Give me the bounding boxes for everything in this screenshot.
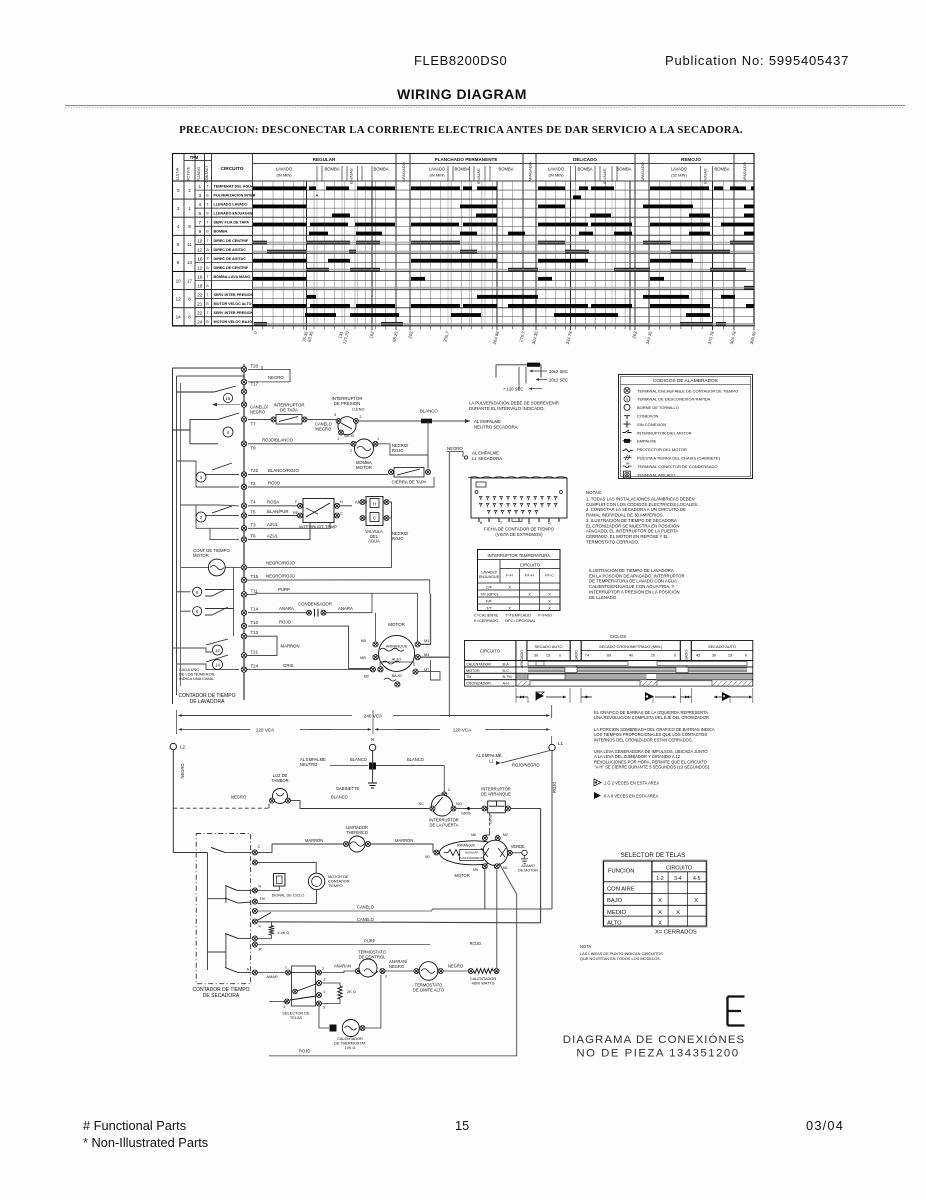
svg-text:4800 WATTS: 4800 WATTS xyxy=(472,981,495,986)
svg-text:AL EMPALME: AL EMPALME xyxy=(474,419,501,424)
svg-text:T/T: T/T xyxy=(486,605,492,610)
svg-text:ROJO: ROJO xyxy=(552,782,557,793)
svg-text:SERV FIJA DE TAPA: SERV FIJA DE TAPA xyxy=(214,221,250,225)
svg-text:DE LIMITE ALTO: DE LIMITE ALTO xyxy=(413,987,444,992)
svg-text:T5: T5 xyxy=(251,510,257,515)
svg-text:8: 8 xyxy=(177,260,180,265)
resistor 2K xyxy=(322,983,356,1004)
svg-text:APAGADO: APAGADO xyxy=(520,650,524,668)
svg-text:1: 1 xyxy=(337,437,339,441)
svg-text:2: 2 xyxy=(188,188,191,193)
svg-text:0: 0 xyxy=(177,188,180,193)
pump motor BOMBA MOTOR xyxy=(248,437,428,470)
temp table legend xyxy=(474,613,552,624)
svg-text:4: 4 xyxy=(177,224,180,229)
svg-text:2: 2 xyxy=(360,415,362,419)
svg-text:18: 18 xyxy=(197,284,203,290)
svg-text:CIERRA DE TAPA: CIERRA DE TAPA xyxy=(392,480,427,485)
svg-text:6 A 8 VECES EN ESTA AREA: 6 A 8 VECES EN ESTA AREA xyxy=(604,794,659,799)
svg-text:CANELO: CANELO xyxy=(357,917,374,922)
cam switch 5 xyxy=(177,587,234,596)
svg-text:ARRANQUE: ARRANQUE xyxy=(386,645,408,649)
svg-text:NEGRO: NEGRO xyxy=(447,446,463,451)
svg-text:T21: T21 xyxy=(251,649,259,654)
svg-text:LLENO: LLENO xyxy=(352,408,364,412)
notes NOTAS xyxy=(586,490,698,544)
thermostat heater CALENTADOR DE THERMOSTAT xyxy=(269,975,517,1056)
cam switch 14 xyxy=(177,655,240,670)
svg-text:C=CALIENTE: C=CALIENTE xyxy=(474,613,499,618)
svg-text:C/F: C/F xyxy=(486,584,493,589)
svg-text:CODIGOS DE ALAMBRADOS: CODIGOS DE ALAMBRADOS xyxy=(653,378,718,384)
svg-text:T14: T14 xyxy=(251,607,259,612)
svg-text:REGULAR: REGULAR xyxy=(313,157,336,162)
svg-text:ROSA: ROSA xyxy=(267,499,279,504)
cam switch 16 xyxy=(177,386,241,406)
svg-text:TERMINAL AISLADO: TERMINAL AISLADO xyxy=(637,472,675,477)
svg-text:SERV INTER PRESION: SERV INTER PRESION xyxy=(214,311,254,315)
svg-text:CONTADOR: CONTADOR xyxy=(328,879,350,883)
svg-text:LAVADO: LAVADO xyxy=(276,167,293,172)
svg-text:CIRCUITO: CIRCUITO xyxy=(520,563,541,568)
svg-text:DE LLENADO.: DE LLENADO. xyxy=(589,595,617,600)
svg-text:MARRÓN: MARRÓN xyxy=(305,838,323,843)
svg-text:X: X xyxy=(548,591,551,596)
timer chart gridlines xyxy=(263,181,724,326)
svg-text:* Non-Illustrated Parts: * Non-Illustrated Parts xyxy=(83,1135,208,1150)
svg-text:VERDE: VERDE xyxy=(511,844,525,849)
svg-text:12: 12 xyxy=(176,296,182,301)
svg-text:MOTOR: MOTOR xyxy=(193,553,209,558)
svg-text:PROTECTOR DEL MOTOR: PROTECTOR DEL MOTOR xyxy=(637,447,687,452)
svg-text:(IN MIN): (IN MIN) xyxy=(548,173,564,178)
svg-text:1: 1 xyxy=(377,437,379,441)
svg-text:15: 15 xyxy=(455,1118,469,1133)
svg-text:CERRADO, EL MOTOR EN REPOSE Y: CERRADO, EL MOTOR EN REPOSE Y EL xyxy=(586,534,669,539)
svg-text:T13: T13 xyxy=(251,630,259,635)
svg-text:VACIO: VACIO xyxy=(344,434,355,438)
caption CONTADOR DE TIEMPO DE LAVADORA xyxy=(178,693,235,705)
svg-text:2: 2 xyxy=(322,967,324,971)
svg-text:N: N xyxy=(371,737,374,742)
svg-text:T/F (OPC): T/F (OPC) xyxy=(480,591,499,596)
svg-text:DE THERMOSTAT: DE THERMOSTAT xyxy=(334,1041,367,1045)
svg-text:RAMAL INDIVIDUAL DE 30 AMPERIO: RAMAL INDIVIDUAL DE 30 AMPERIOS. xyxy=(586,513,664,518)
svg-text:1: 1 xyxy=(188,206,191,211)
motor wiring to bus xyxy=(376,594,450,680)
svg-text:1: 1 xyxy=(198,184,201,190)
svg-text:ROJO/BLANCO: ROJO/BLANCO xyxy=(262,437,293,442)
svg-text:T: T xyxy=(206,275,208,279)
svg-text:(IN MIN): (IN MIN) xyxy=(429,173,445,178)
svg-text:4: 4 xyxy=(198,202,201,208)
svg-text:CONTACT: CONTACT xyxy=(205,165,209,183)
svg-text:DE TEMPERATURA DE LAVADO CON A: DE TEMPERATURA DE LAVADO CON AGUA xyxy=(589,579,677,584)
dimension 120 VCA right xyxy=(375,727,550,732)
capacitor CONDENSADOR xyxy=(248,593,372,616)
svg-text:SIGNAL DE CICLO: SIGNAL DE CICLO xyxy=(272,893,305,897)
timer motor CONT DE TIEMPO xyxy=(181,548,241,636)
svg-text:INTERRUPTOR A PRESIÓN EN LA PO: INTERRUPTOR A PRESIÓN EN LA POSICIÓN xyxy=(589,589,680,594)
svg-text:F-H: F-H xyxy=(506,573,513,578)
svg-text:6: 6 xyxy=(177,242,180,247)
terminal L1 xyxy=(549,741,564,909)
svg-text:CALENTADOR: CALENTADOR xyxy=(466,662,491,666)
wire T2 ROJO xyxy=(248,477,434,487)
svg-text:NO DE PIEZA 134351200: NO DE PIEZA 134351200 xyxy=(576,1048,739,1060)
svg-text:DE PRESION: DE PRESION xyxy=(334,401,361,406)
svg-text:10±2 SEC: 10±2 SEC xyxy=(549,369,568,374)
svg-text:LAVADO: LAVADO xyxy=(429,167,446,172)
svg-text:X: X xyxy=(508,605,511,610)
cycle chart arrows xyxy=(516,688,753,703)
svg-text:LAVADO/: LAVADO/ xyxy=(481,571,497,575)
svg-text:BLANCO/ROJO: BLANCO/ROJO xyxy=(268,468,299,473)
svg-text:AL EMPALME: AL EMPALME xyxy=(476,753,502,758)
svg-text:9: 9 xyxy=(198,229,201,235)
svg-text:M5: M5 xyxy=(473,868,478,872)
svg-text:MOTOR VELOC ALTO: MOTOR VELOC ALTO xyxy=(214,302,252,306)
main motor MOTOR xyxy=(360,622,429,687)
svg-text:(32 MIN): (32 MIN) xyxy=(671,173,687,178)
wire T20/T17 NEGRO xyxy=(244,364,290,382)
timer contact R PURP xyxy=(208,933,431,967)
cam switch 12 xyxy=(173,639,229,655)
dryer timer inner rail xyxy=(173,853,207,971)
svg-text:1. TODAS LAS INSTALACIONES AL: 1. TODAS LAS INSTALACIONES ALAMBRICAS DE… xyxy=(586,497,695,502)
svg-text:CICLOS: CICLOS xyxy=(610,634,626,639)
svg-text:APAGADO: APAGADO xyxy=(742,162,747,182)
svg-text:3: 3 xyxy=(323,978,325,982)
svg-text:# Functional Parts: # Functional Parts xyxy=(83,1118,186,1133)
timer contact K + resistor 4.4K xyxy=(252,913,289,939)
svg-text:16: 16 xyxy=(197,256,203,262)
svg-text:X: X xyxy=(694,898,698,904)
title WIRING DIAGRAM xyxy=(65,86,905,108)
precaution line xyxy=(179,124,743,136)
dryer cycle chart CICLOS xyxy=(465,634,753,686)
svg-text:H: H xyxy=(340,500,343,504)
svg-text:15: 15 xyxy=(546,653,550,658)
svg-text:240 VCA: 240 VCA xyxy=(364,714,383,719)
svg-text:3: 3 xyxy=(198,193,201,199)
svg-text:MEDIO: MEDIO xyxy=(607,910,626,916)
svg-text:10K Ω: 10K Ω xyxy=(345,1046,356,1050)
svg-text:NO: NO xyxy=(456,802,462,806)
svg-text:CONEXION: CONEXION xyxy=(637,414,658,419)
svg-text:M3: M3 xyxy=(424,653,429,657)
svg-text:MOTOR: MOTOR xyxy=(388,622,405,627)
svg-text:8: 8 xyxy=(188,296,191,301)
svg-text:MARRON: MARRON xyxy=(281,644,300,649)
door switch INTERRUPTOR DE LA PUERTA xyxy=(419,766,482,828)
svg-text:TM: TM xyxy=(260,897,265,901)
svg-text:X= CERRADOS: X= CERRADOS xyxy=(655,930,697,936)
svg-text:DIREC DE AGITAC: DIREC DE AGITAC xyxy=(214,257,247,261)
svg-text:16: 16 xyxy=(226,396,231,401)
svg-text:GABINETTE: GABINETTE xyxy=(336,786,359,791)
ground GABINETTE xyxy=(336,762,377,791)
svg-text:APAGADO: APAGADO xyxy=(640,162,645,182)
legend triangle 1 xyxy=(594,779,659,786)
svg-text:3-4: 3-4 xyxy=(674,876,681,882)
svg-text:M1: M1 xyxy=(425,855,430,859)
cam switch 6 xyxy=(181,607,234,616)
svg-text:4-5: 4-5 xyxy=(693,876,700,882)
legend triangle 2 xyxy=(594,792,659,799)
wire T3/T6 AZUL xyxy=(248,522,330,540)
svg-text:CUMPLIR CON LOS CODIGOS ELECTR: CUMPLIR CON LOS CODIGOS ELECTRICOS LOCAL… xyxy=(586,502,698,507)
svg-text:BLAN/PUR: BLAN/PUR xyxy=(267,509,289,514)
svg-text:T3: T3 xyxy=(251,522,257,527)
svg-text:FUNCIONAMIENTO: FUNCIONAMIENTO xyxy=(459,856,485,860)
control thermostat TERMOSTATO DE CONTROL xyxy=(322,950,387,979)
svg-text:AZUL: AZUL xyxy=(267,533,279,538)
svg-text:T6: T6 xyxy=(251,534,257,539)
svg-text:T20: T20 xyxy=(251,363,259,368)
svg-text:M1: M1 xyxy=(424,639,429,643)
svg-text:MOTOR: MOTOR xyxy=(466,669,480,673)
svg-text:B-A: B-A xyxy=(503,662,510,666)
svg-text:LAVADO: LAVADO xyxy=(548,167,565,172)
header publication number xyxy=(665,53,849,68)
svg-text:T9: T9 xyxy=(251,446,257,451)
svg-text:BLANCO: BLANCO xyxy=(420,409,438,414)
timer chart frame xyxy=(173,154,755,326)
svg-text:F/F: F/F xyxy=(486,598,492,603)
svg-text:FLEB8200DS0: FLEB8200DS0 xyxy=(414,53,507,68)
svg-text:21: 21 xyxy=(197,302,203,308)
wire T24 GRIS xyxy=(247,663,376,670)
timer contact TM xyxy=(225,897,432,922)
svg-text:FIJADO: FIJADO xyxy=(196,167,201,181)
svg-text:APAGADO, EL INTERRUPTOR DE LA: APAGADO, EL INTERRUPTOR DE LA PUERTA xyxy=(586,529,678,534)
svg-text:T15: T15 xyxy=(251,574,259,579)
svg-text:C: C xyxy=(340,512,343,516)
svg-text:H: H xyxy=(259,885,262,889)
svg-text:"A-H" SE CIERRE DURANTE 5 SEGU: "A-H" SE CIERRE DURANTE 5 SEGUNDOS (±3 S… xyxy=(594,765,710,770)
footer page number xyxy=(455,1118,469,1133)
svg-text:NOTA:: NOTA: xyxy=(580,944,592,949)
svg-text:CIRCUITO: CIRCUITO xyxy=(666,866,692,872)
svg-text:DURANTE EL INTERVALO INDICADO.: DURANTE EL INTERVALO INDICADO. xyxy=(469,406,545,411)
svg-text:TERMINAL DE DESCONEXION RAPIDA: TERMINAL DE DESCONEXION RAPIDA xyxy=(637,397,711,402)
svg-text:EN LA POSCIÓN DE APAGADO, INTE: EN LA POSCIÓN DE APAGADO, INTERRUPTOR xyxy=(589,573,685,578)
timer chart cam bars xyxy=(253,186,754,325)
washer timer terminals upper xyxy=(241,363,258,542)
washer timer outer frame xyxy=(173,368,245,704)
svg-text:T: T xyxy=(206,257,208,261)
wire T10 ROJO xyxy=(248,620,372,669)
svg-text:T22: T22 xyxy=(251,468,259,473)
timer plug FICHA DE CONTADOR xyxy=(468,477,567,525)
svg-text:DE LAVADORA: DE LAVADORA xyxy=(190,699,225,705)
svg-text:NEGRO: NEGRO xyxy=(268,375,284,380)
washer timer terminals lower xyxy=(241,565,258,673)
wire T13/T21 MARRON xyxy=(247,636,300,655)
svg-text:RF: RF xyxy=(293,511,299,515)
svg-text:4: 4 xyxy=(283,1005,285,1009)
svg-text:ARRANQUE: ARRANQUE xyxy=(457,843,475,847)
svg-text:T: T xyxy=(206,293,208,297)
svg-text:CIRCUITO: CIRCUITO xyxy=(220,166,243,172)
caption CONTADOR DE TIEMPO DE SECADORA xyxy=(192,987,249,999)
svg-text:120 VCA: 120 VCA xyxy=(256,727,275,732)
svg-text:EMPALME: EMPALME xyxy=(637,439,657,444)
svg-text:NEGRO/ROJO: NEGRO/ROJO xyxy=(266,561,296,566)
svg-text:BOMBA: BOMBA xyxy=(498,167,513,172)
svg-text:12: 12 xyxy=(215,648,220,653)
svg-text:12: 12 xyxy=(197,265,203,271)
svg-text:14: 14 xyxy=(215,663,220,668)
washer timer contact bus xyxy=(243,364,245,700)
svg-text:SERV INTER PRESION: SERV INTER PRESION xyxy=(214,293,254,297)
diagram part number xyxy=(563,1033,745,1060)
svg-text:BLANCO: BLANCO xyxy=(407,757,424,762)
svg-text:ALTO: ALTO xyxy=(607,921,622,927)
svg-text:APAGADO: APAGADO xyxy=(401,162,406,182)
svg-text:8: 8 xyxy=(188,224,191,229)
caption CADA UNO xyxy=(179,667,215,681)
svg-text:MOTOR VELOC BAJO: MOTOR VELOC BAJO xyxy=(214,320,253,324)
svg-text:T: T xyxy=(206,203,208,207)
svg-text:1: 1 xyxy=(285,966,287,970)
svg-text:BOMBA: BOMBA xyxy=(616,167,631,172)
svg-text:T2: T2 xyxy=(251,481,257,486)
svg-text:AMAR: AMAR xyxy=(266,974,277,979)
svg-text:EL CRONIZADOR SE MUESTRA EN PO: EL CRONIZADOR SE MUESTRA EN POSICIÓN xyxy=(586,523,679,528)
svg-text:L1: L1 xyxy=(489,759,494,764)
svg-text:NEGRO: NEGRO xyxy=(448,964,463,969)
svg-text:20±2 SEC: 20±2 SEC xyxy=(549,378,568,383)
wire dashed run xyxy=(173,801,429,809)
svg-text:WIRING DIAGRAM: WIRING DIAGRAM xyxy=(397,86,527,102)
svg-text:SECADO CRONOMETRADO (MIN.): SECADO CRONOMETRADO (MIN.) xyxy=(599,644,663,649)
svg-text:ADAMO: ADAMO xyxy=(521,864,535,868)
svg-text:L1 SECADORA: L1 SECADORA xyxy=(472,456,502,461)
svg-text:MOTOR: MOTOR xyxy=(455,873,470,878)
svg-text:BOMBA: BOMBA xyxy=(714,167,729,172)
svg-text:AGUA: AGUA xyxy=(368,539,380,544)
svg-text:2: 2 xyxy=(350,449,352,453)
svg-text:UNA REVOLUCION COMPLETA DEL EJ: UNA REVOLUCION COMPLETA DEL EJE DEL CRON… xyxy=(594,715,710,720)
svg-text:AUXILIAR: AUXILIAR xyxy=(465,851,480,855)
svg-text:X: X xyxy=(658,921,662,927)
svg-text:ACTIVE: ACTIVE xyxy=(186,166,191,181)
wire BLANCO to neutral xyxy=(359,409,470,424)
svg-text:TIEMPO: TIEMPO xyxy=(328,884,343,888)
svg-text:5: 5 xyxy=(323,1006,325,1010)
heater CALENTADOR 4800 WATTS xyxy=(444,941,499,986)
svg-text:4.4K Ω: 4.4K Ω xyxy=(278,931,290,935)
svg-text:PRECAUCION: DESCONECTAR LA: PRECAUCION: DESCONECTAR LA CORRIENTE ELE… xyxy=(179,124,743,136)
svg-text:10: 10 xyxy=(176,278,182,283)
svg-text:H: H xyxy=(373,502,376,507)
svg-text:15: 15 xyxy=(728,653,732,658)
svg-text:DELICADO: DELICADO xyxy=(573,157,597,162)
svg-text:T=TEMPLADO: T=TEMPLADO xyxy=(505,613,531,618)
lid switch INTERRUPTOR DE TAPA xyxy=(248,403,336,432)
svg-text:T: T xyxy=(206,221,208,225)
svg-text:FUNCIÓN: FUNCIÓN xyxy=(608,868,634,875)
svg-text:NEGRO: NEGRO xyxy=(180,763,185,778)
legend box CODIGOS DE ALAMBRADOS xyxy=(619,375,753,479)
svg-text:TERMOSTATO CERRADO.: TERMOSTATO CERRADO. xyxy=(586,539,639,544)
svg-text:NEGRO/ROJO: NEGRO/ROJO xyxy=(266,573,296,578)
svg-text:DIREC DE CENTRIF: DIREC DE CENTRIF xyxy=(214,239,249,243)
svg-text:2. CONECTAR LA SECADORA A UN: 2. CONECTAR LA SECADORA A UN CIRCUITO DE xyxy=(586,507,686,512)
svg-text:ILUSTRACIÓN DE TIEMPO DE LAVAD: ILUSTRACIÓN DE TIEMPO DE LAVADORA xyxy=(589,568,674,573)
svg-text:11: 11 xyxy=(187,242,192,247)
svg-text:X: X xyxy=(528,591,531,596)
svg-text:BLANCO: BLANCO xyxy=(350,757,367,762)
svg-text:BOMBA-LAVA MANO: BOMBA-LAVA MANO xyxy=(214,275,251,279)
svg-text:M2: M2 xyxy=(364,675,369,679)
signal de ciclo xyxy=(208,862,317,903)
svg-text:LLENADO ENJUAGUE: LLENADO ENJUAGUE xyxy=(214,212,254,216)
svg-text:C: C xyxy=(258,845,261,849)
svg-text:NEGRO: NEGRO xyxy=(231,795,246,800)
svg-text:NEGRO: NEGRO xyxy=(250,409,265,414)
svg-text:CALIENTE/ENJUAGUE CON AGUA FRI: CALIENTE/ENJUAGUE CON AGUA FRIA, Y xyxy=(589,584,675,589)
svg-text:THERMICO: THERMICO xyxy=(346,830,368,835)
svg-text:DE LA PUERTA: DE LA PUERTA xyxy=(430,822,459,827)
svg-text:1 Ó 2 VECES EN ESTA AREA: 1 Ó 2 VECES EN ESTA AREA xyxy=(604,781,659,786)
svg-text:SECADO AUTO: SECADO AUTO xyxy=(534,644,562,649)
timer motor MOTOR DE CONTADOR TIEMPO xyxy=(258,873,350,903)
svg-text:LLENA: LLENA xyxy=(175,167,180,180)
svg-text:120 VCA: 120 VCA xyxy=(453,727,472,732)
svg-text:M2: M2 xyxy=(503,833,508,837)
drum light LUZ DE TAMBOR xyxy=(231,773,348,804)
svg-text:99: 99 xyxy=(626,462,630,466)
node AL EMPALME L1 (dryer) xyxy=(476,751,550,768)
svg-text:16: 16 xyxy=(197,274,203,280)
thermal limiter LIMITADOR THERMICO xyxy=(269,825,413,852)
svg-text:X: X xyxy=(548,605,551,610)
revision letter E xyxy=(728,997,745,1026)
svg-text:LAVADO: LAVADO xyxy=(671,167,688,172)
svg-text:K=CERRADO: K=CERRADO xyxy=(474,618,498,623)
pressure switch INTERRUPTOR DE PRESION xyxy=(332,396,365,441)
svg-text:Publication No: 5995405437: Publication No: 5995405437 xyxy=(665,53,849,68)
svg-text:MR: MR xyxy=(360,656,366,660)
dryer timer dashed box xyxy=(196,834,250,984)
svg-text:3: 3 xyxy=(385,975,387,979)
svg-text:12: 12 xyxy=(197,247,203,253)
temperature switch INTERRUPT TEMP xyxy=(248,499,343,530)
svg-text:(VISTA DE EXTREMOS): (VISTA DE EXTREMOS) xyxy=(495,532,543,537)
svg-text:BOMBA: BOMBA xyxy=(577,167,592,172)
wire T15 PURP xyxy=(247,587,418,641)
svg-text:CANELO: CANELO xyxy=(357,905,374,910)
svg-text:DE SECADORA: DE SECADORA xyxy=(203,993,240,999)
svg-text:TELAS: TELAS xyxy=(290,1015,303,1020)
svg-text:BAJO: BAJO xyxy=(392,674,402,678)
svg-text:TAMBOR: TAMBOR xyxy=(271,778,288,783)
svg-text:ANARA: ANARA xyxy=(279,606,294,611)
svg-text:LLENADO LAVADO: LLENADO LAVADO xyxy=(214,203,248,207)
svg-text:X: X xyxy=(508,584,511,589)
svg-text:PURP: PURP xyxy=(278,587,290,592)
caption FICHA xyxy=(484,527,555,538)
svg-text:PURP: PURP xyxy=(364,938,376,943)
svg-text:GRIS: GRIS xyxy=(488,814,493,824)
svg-text:F=FRIO: F=FRIO xyxy=(538,613,552,618)
svg-text:QUE NO ESTAN EN TODOS LOS MODE: QUE NO ESTAN EN TODOS LOS MODELOS. xyxy=(580,956,661,961)
svg-text:1-2: 1-2 xyxy=(656,876,663,882)
paragraph EL GRAFICO xyxy=(594,710,715,770)
